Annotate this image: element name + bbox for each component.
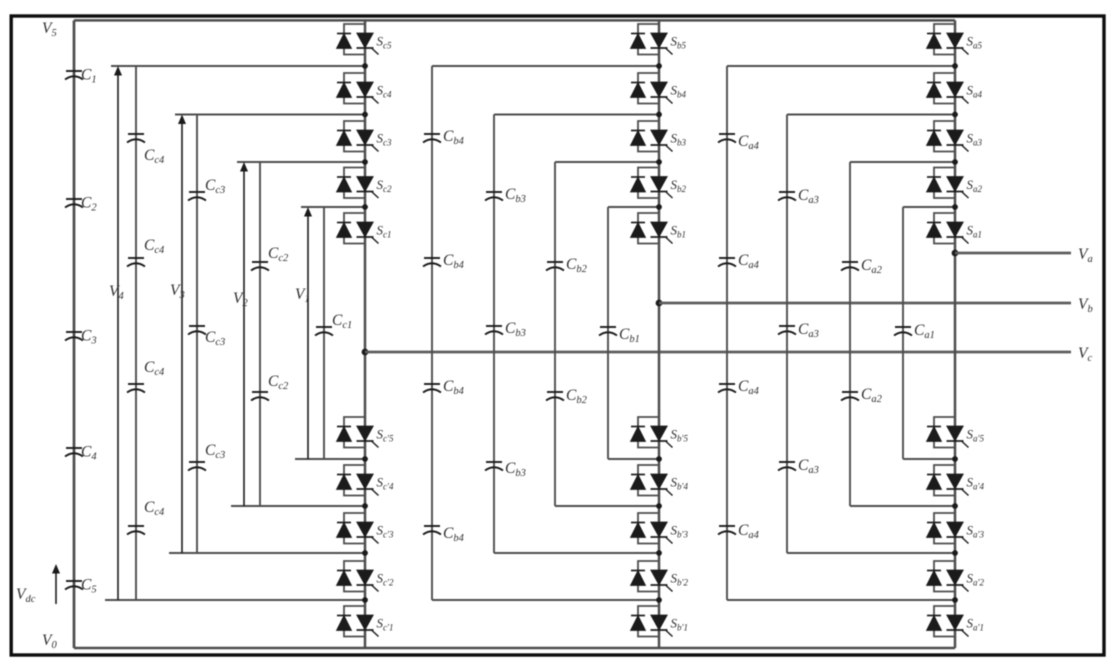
wire upper node line c1: [301, 206, 365, 208]
capacitor Ca4: [718, 258, 736, 267]
wire Cb2 rail: [554, 162, 556, 506]
node c-upper-4: [362, 63, 368, 69]
arrow V4: [117, 72, 119, 600]
wire upper node line b2: [555, 161, 659, 163]
wire upper node line b4: [432, 65, 659, 67]
wire upper node line c4: [111, 65, 365, 67]
capacitor C4: [65, 448, 83, 457]
switch Sc3: [344, 121, 365, 152]
wire Cc2 rail: [259, 162, 261, 506]
switch Scp5: [344, 417, 365, 448]
node c-lower-3: [362, 550, 368, 556]
node a-lower-1: [952, 456, 958, 462]
capacitor Cb3: [485, 462, 503, 471]
node a-upper-3: [952, 112, 958, 118]
node a-upper-2: [952, 159, 958, 165]
switch Sa5: [934, 24, 955, 55]
capacitor Cc1: [315, 327, 333, 336]
arrow V2: [243, 168, 245, 506]
wire lower node line c4: [105, 599, 365, 601]
switch Sap3: [934, 513, 955, 544]
node b-upper-4: [656, 63, 662, 69]
wire upper node line c2: [237, 161, 365, 163]
source Vdc arrow: [55, 570, 57, 604]
switch Scp3: [344, 513, 365, 544]
node phase a output: [952, 250, 959, 257]
node b-lower-1: [656, 456, 662, 462]
node c-upper-3: [362, 112, 368, 118]
capacitor Cc3: [188, 192, 206, 201]
node b-upper-2: [656, 159, 662, 165]
capacitor Cb3: [485, 192, 503, 201]
node b-lower-3: [656, 550, 662, 556]
switch Sc4: [344, 73, 365, 104]
switch Sa2: [934, 168, 955, 199]
capacitor Ca4: [718, 134, 736, 143]
wire Cc1 rail: [323, 207, 325, 459]
capacitor Cc4: [127, 384, 145, 393]
capacitor Ca4: [718, 384, 736, 393]
capacitor Cc2: [251, 392, 269, 401]
wire output Vb: [659, 302, 1071, 305]
switch Sb1: [638, 213, 659, 244]
node a-lower-2: [952, 503, 958, 509]
capacitor Ca2: [841, 392, 859, 401]
wire lower node line b4: [432, 599, 659, 601]
wire phase-c column: [364, 20, 367, 648]
capacitor Cb3: [485, 326, 503, 335]
node phase b output: [656, 300, 663, 307]
capacitor Ca3: [778, 326, 796, 335]
capacitor Ca1: [894, 327, 912, 336]
switch Sap2: [934, 561, 955, 592]
wire lower node line c3: [169, 552, 365, 554]
wire phase-b column: [658, 20, 661, 648]
wire Ca2 rail: [849, 162, 851, 506]
wire DC-link left rail: [73, 20, 76, 648]
capacitor Ca3: [778, 192, 796, 201]
capacitor Cb4: [423, 384, 441, 393]
wire output Vc: [365, 351, 1071, 354]
wire upper node line b3: [494, 114, 659, 116]
wire lower node line b2: [555, 505, 659, 507]
wire Cc3 rail: [196, 115, 198, 554]
capacitor Cb2: [546, 262, 564, 271]
arrow V1: [307, 213, 309, 459]
capacitor C3: [65, 332, 83, 341]
wire Cb3 rail: [493, 115, 495, 554]
switch Sbp5: [638, 417, 659, 448]
switch Sc1: [344, 213, 365, 244]
capacitor Ca3: [778, 462, 796, 471]
switch Sap1: [934, 606, 955, 637]
switch Sc2: [344, 168, 365, 199]
wire upper node line c3: [175, 114, 365, 116]
node c-lower-1: [362, 456, 368, 462]
switch Sb2: [638, 168, 659, 199]
switch Scp4: [344, 465, 365, 496]
wire Ca4 rail: [726, 66, 728, 600]
capacitor Cb4: [423, 526, 441, 535]
node c-lower-2: [362, 503, 368, 509]
capacitor C1: [65, 71, 83, 80]
wire top DC bus V5: [74, 19, 955, 22]
node c-lower-4: [362, 597, 368, 603]
switch Sbp2: [638, 561, 659, 592]
switch Sbp4: [638, 465, 659, 496]
node a-upper-1: [952, 204, 958, 210]
capacitor Cb2: [546, 392, 564, 401]
switch Sb5: [638, 24, 659, 55]
node a-lower-3: [952, 550, 958, 556]
capacitor Cc4: [127, 134, 145, 143]
wire lower node line a1: [903, 458, 955, 460]
wire phase-a column: [954, 20, 957, 648]
wire Cc4 rail: [135, 66, 137, 600]
capacitor Cc4: [127, 526, 145, 535]
capacitor Cc4: [127, 258, 145, 267]
node c-upper-2: [362, 159, 368, 165]
switch Sb3: [638, 121, 659, 152]
switch Sbp3: [638, 513, 659, 544]
switch Scp2: [344, 561, 365, 592]
wire lower node line c1: [295, 458, 365, 460]
capacitor Cc3: [188, 326, 206, 335]
capacitor Cb4: [423, 258, 441, 267]
switch Sa1: [934, 213, 955, 244]
wire output Va: [955, 252, 1071, 255]
capacitor Cb4: [423, 134, 441, 143]
node b-upper-3: [656, 112, 662, 118]
wire upper node line a2: [850, 161, 955, 163]
capacitor Ca4: [718, 526, 736, 535]
wire Ca3 rail: [786, 115, 788, 554]
wire upper node line a4: [727, 65, 955, 67]
wire Cb4 rail: [431, 66, 433, 600]
switch Sa4: [934, 73, 955, 104]
switch Sap5: [934, 417, 955, 448]
wire lower node line b3: [494, 552, 659, 554]
node c-upper-1: [362, 204, 368, 210]
capacitor Cc2: [251, 262, 269, 271]
capacitor Cc3: [188, 462, 206, 471]
wire upper node line a3: [787, 114, 955, 116]
capacitor Cb1: [599, 327, 617, 336]
wire lower node line b1: [608, 458, 659, 460]
wire lower node line a2: [850, 505, 955, 507]
wire Cb1 rail: [607, 207, 609, 459]
switch Sa3: [934, 121, 955, 152]
capacitor C5: [65, 581, 83, 590]
node a-upper-4: [952, 63, 958, 69]
wire lower node line a4: [727, 599, 955, 601]
node b-upper-1: [656, 204, 662, 210]
capacitor C2: [65, 199, 83, 208]
node b-lower-2: [656, 503, 662, 509]
wire lower node line a3: [787, 552, 955, 554]
arrow V3: [181, 121, 183, 554]
switch Scp1: [344, 606, 365, 637]
wire Ca1 rail: [902, 207, 904, 459]
switch Sbp1: [638, 606, 659, 637]
node phase c output: [362, 349, 369, 356]
switch Sap4: [934, 465, 955, 496]
wire upper node line a1: [903, 206, 955, 208]
switch Sb4: [638, 73, 659, 104]
capacitor Ca2: [841, 262, 859, 271]
switch Sc5: [344, 24, 365, 55]
wire upper node line b1: [608, 206, 659, 208]
node b-lower-4: [656, 597, 662, 603]
node a-lower-4: [952, 597, 958, 603]
wire bottom DC bus V0: [74, 647, 955, 650]
wire lower node line c2: [231, 505, 365, 507]
